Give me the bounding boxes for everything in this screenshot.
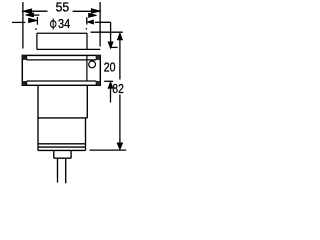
- component: sensing face box top edge: [37, 32, 87, 34]
- node: phi34 left body-edge extension stub: [36, 17, 38, 25]
- svg-text:55: 55: [56, 0, 70, 15]
- node: head corner boxes darkened: [22, 55, 26, 60]
- wire: 20-dim vertical drop line: [110, 22, 112, 43]
- wire: left extension line of 55 dim: [22, 2, 24, 49]
- arrow: 55 right arrowhead: [91, 9, 100, 14]
- wire: head internal divider near right: [86, 55, 88, 81]
- component: cylindrical body right edge lower: [85, 118, 87, 151]
- component: cylindrical body right edge upper: [86, 85, 88, 118]
- wire: flange middle line: [38, 146, 86, 148]
- arrow: phi34 outside arrow pointing left at right body edge: [87, 20, 93, 24]
- wire: 20-dim bottom serif: [104, 80, 113, 82]
- component: sensing face box right edge: [86, 33, 88, 49]
- wire: flange bottom line: [38, 149, 86, 151]
- wire: body section boundary step: [38, 117, 87, 119]
- svg-text:34: 34: [58, 17, 70, 31]
- arrow: 82-dim down arrowhead at bottom: [117, 143, 122, 150]
- wire: phi34 inner dim stub left: [33, 14, 39, 16]
- arrow: phi34 outside arrow pointing right at left body edge: [29, 18, 38, 22]
- arrow: 82-dim up arrowhead at top: [117, 33, 122, 40]
- wire: body bottom line: [38, 143, 86, 145]
- node: tick above face box left corner: [35, 28, 37, 30]
- wire: 20-dim lower tail below up-arrow: [110, 88, 112, 103]
- node: tick above face box right corner: [85, 28, 87, 29]
- wire: head inner bottom line: [27, 80, 97, 82]
- arrow: phi34 right inner arrowhead: [89, 13, 97, 17]
- wire: cable left line: [57, 158, 59, 182]
- wire: 82-dim bottom reference line: [90, 149, 127, 151]
- wire: cable right line: [65, 158, 67, 183]
- component: cylindrical body left edge: [37, 85, 39, 150]
- wire: phi34 outside tail left: [12, 21, 25, 23]
- wire: 20-dim top serif: [111, 46, 118, 48]
- component: cable gland neck: [54, 150, 71, 158]
- component: sensor head outer rectangle: [22, 55, 100, 85]
- wire: phi34 outside tail right joining 20-dim drop line: [95, 21, 111, 23]
- arrow: 20-dim down arrowhead: [108, 42, 113, 48]
- wire: right extension line of 55 dim: [99, 2, 101, 46]
- wire: 55 dimension line: [23, 10, 100, 12]
- wire: 82-dim vertical line upper: [119, 40, 121, 80]
- node: head inner corner ticks: [27, 55, 97, 85]
- node: phi34 right body-edge extension stub: [86, 17, 88, 24]
- arrow: 55 left arrowhead: [23, 9, 32, 14]
- component: sensing face box left edge: [36, 33, 38, 49]
- wire: sensing face box bottom edge extended to right extension line: [37, 48, 100, 50]
- arrow: phi34 left inner arrowhead: [26, 13, 34, 17]
- wire: 82-dim vertical line lower: [119, 95, 121, 143]
- label: phi symbol of phi34: [50, 19, 56, 30]
- arrow: 20-dim up arrowhead: [108, 82, 113, 88]
- component: LED indicator circle: [89, 61, 96, 68]
- wire: 82-dim top reference line: [91, 31, 123, 33]
- svg-text:82: 82: [112, 81, 123, 96]
- wire: head inner top line: [27, 59, 97, 61]
- svg-text:20: 20: [104, 59, 116, 74]
